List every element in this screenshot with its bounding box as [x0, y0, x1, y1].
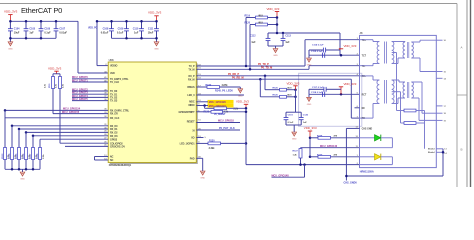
wire strap bottom rail — [5, 168, 40, 170]
wire P0_TD_M — [196, 68, 309, 70]
capacitor C117 0.1uF — [308, 89, 310, 94]
wire P0_RD_M — [196, 78, 351, 80]
choke CMC RX — [392, 79, 399, 81]
svg-text:PAD: PAD — [190, 157, 195, 160]
wire net MCU_GPIO72 — [72, 90, 108, 92]
wire bank2 top rail — [97, 20, 157, 22]
svg-text:C112: C112 — [250, 35, 256, 37]
wire MCU_GPIO148 stub — [304, 165, 306, 178]
ground — [20, 172, 25, 176]
svg-text:U08: U08 — [109, 58, 114, 62]
svg-text:TCT: TCT — [362, 55, 367, 57]
wire to shield — [424, 111, 426, 149]
wire R129 — [310, 156, 318, 158]
wire cap split — [286, 111, 301, 113]
highlight MDC net label — [208, 100, 234, 104]
wire R120 to TX_M — [249, 25, 251, 70]
svg-text:P0_RD_M: P0_RD_M — [232, 76, 244, 79]
wire net MCU_GPIO70 — [72, 78, 108, 80]
wire to R125 — [264, 76, 266, 90]
resistor R130 2.49k — [208, 142, 221, 145]
resistor R115 2.2k strap — [18, 148, 21, 160]
resistor R123 2.2k — [211, 110, 223, 113]
resistor R127 1.2k — [299, 149, 302, 159]
wire RX_D2 strap row — [26, 131, 108, 133]
wire cap bottom rail — [268, 45, 283, 47]
wire cap bottom — [286, 124, 301, 126]
svg-text:NC: NC — [362, 108, 366, 110]
LED green D1 — [360, 137, 375, 139]
svg-text:0.01uF: 0.01uF — [101, 32, 109, 35]
wire bank2 bottom rail — [112, 37, 157, 39]
svg-text:NC: NC — [110, 159, 114, 162]
svg-text:XO: XO — [191, 137, 195, 140]
resistor R128 4.7k — [318, 136, 331, 139]
resistor R112 2.2k pullup — [59, 77, 62, 89]
sheet frame right inner border — [456, 4, 458, 188]
wire VDD drop to AVD pin — [77, 21, 79, 73]
svg-text:R113: R113 — [2, 153, 4, 159]
power VDD_3V3 — [154, 15, 158, 17]
svg-text:MCU_GPIO71: MCU_GPIO71 — [72, 79, 88, 82]
svg-text:RBIAS: RBIAS — [187, 86, 195, 89]
pin NC stub — [355, 107, 360, 109]
svg-text:MCU_GPIO140: MCU_GPIO140 — [320, 145, 338, 148]
svg-text:HR911105A: HR911105A — [360, 170, 374, 174]
ground — [154, 42, 159, 46]
svg-text:VDD_3V3: VDD_3V3 — [48, 67, 62, 71]
wire strap R113 — [4, 110, 6, 147]
svg-text:MCU_GPIO75: MCU_GPIO75 — [72, 98, 88, 101]
capacitor C110 — [141, 21, 143, 28]
power VDD_3V3 — [54, 70, 58, 72]
svg-text:C114 0.1uF: C114 0.1uF — [312, 44, 324, 47]
svg-text:1uF: 1uF — [303, 122, 308, 124]
pin 14 — [436, 77, 442, 79]
ground — [200, 171, 205, 175]
svg-text:GND: GND — [154, 48, 159, 50]
svg-text:R129: R129 — [317, 155, 323, 157]
wire to gnd — [308, 55, 310, 58]
capacitor C118 on RCT row — [322, 92, 324, 97]
capacitor C107 — [55, 21, 57, 28]
power VDD_3V3 — [308, 130, 312, 132]
capacitor C104 — [9, 21, 11, 28]
svg-text:LED_1/GPIO1: LED_1/GPIO1 — [180, 143, 196, 146]
resistor R113 2.2k strap — [4, 148, 7, 160]
svg-text:R130: R130 — [209, 140, 215, 142]
svg-text:C106: C106 — [44, 27, 50, 30]
svg-text:VDD_3V3: VDD_3V3 — [344, 82, 357, 86]
svg-text:VDD_3V3: VDD_3V3 — [148, 11, 162, 15]
svg-text:GND: GND — [200, 178, 205, 180]
svg-text:49.9: 49.9 — [258, 21, 263, 24]
resistor bob-smith 75R — [404, 109, 416, 112]
svg-text:C120: C120 — [303, 114, 309, 116]
highlight MDIO net label — [208, 104, 234, 108]
diff pair blanket box — [299, 73, 362, 126]
wire pullup split — [53, 73, 60, 75]
svg-text:C107: C107 — [59, 27, 65, 30]
svg-text:R127: R127 — [293, 150, 299, 152]
svg-text:VDD_P0: VDD_P0 — [88, 28, 98, 30]
pin 18 — [436, 112, 442, 114]
svg-text:GPIO0/INTRPT: GPIO0/INTRPT — [179, 111, 196, 114]
svg-text:VDD_3V3: VDD_3V3 — [4, 10, 18, 14]
resistor R114 2.2k strap — [11, 148, 14, 160]
svg-text:P0_TD_M: P0_TD_M — [261, 67, 272, 70]
power VDD_3V3 — [244, 103, 248, 105]
svg-text:R115: R115 — [16, 153, 18, 159]
ground — [273, 49, 278, 53]
svg-text:C117 0.1uF: C117 0.1uF — [312, 87, 324, 89]
wire RX_D3 strap row — [33, 135, 108, 137]
resistor R118 2.2k strap — [39, 148, 42, 160]
wire bank1 bottom rail — [10, 37, 56, 39]
wire net MCU_GPIO75 — [72, 100, 108, 102]
bob smith termination — [392, 52, 397, 54]
ground — [8, 42, 13, 46]
svg-text:GND: GND — [307, 104, 312, 106]
wire MDIO pullup — [204, 106, 206, 109]
svg-text:0.1uF: 0.1uF — [288, 122, 294, 124]
capacitor C106 — [40, 21, 42, 28]
pin 17 — [436, 105, 442, 107]
svg-text:B: B — [460, 148, 462, 152]
svg-text:RX_M: RX_M — [188, 78, 195, 81]
transformer T2 RX windings — [360, 75, 374, 77]
resistor R122 2.2k — [214, 107, 227, 110]
svg-text:RESET: RESET — [187, 120, 195, 123]
svg-text:C119: C119 — [288, 114, 294, 116]
wire RX bias rail — [295, 90, 297, 113]
wire strap R114 — [11, 126, 13, 148]
wire GPIO0/INTRPT — [196, 111, 211, 113]
wire net MCU_GPIO74 — [72, 96, 108, 98]
svg-text:MCU_GPIO126: MCU_GPIO126 — [209, 101, 227, 104]
wire TCT net from run — [339, 33, 341, 55]
resistor R111 2.2k pullup — [52, 77, 55, 89]
wire LED pullup rail — [309, 138, 311, 157]
wire P0_TD_P — [196, 65, 305, 67]
wire shield net — [442, 149, 444, 176]
wire strap R116 — [25, 132, 27, 147]
svg-text:GND: GND — [238, 95, 243, 97]
power VDD_3V3 — [339, 86, 343, 88]
resistor R117 2.2k strap — [32, 148, 35, 160]
wire RESET — [196, 122, 240, 124]
svg-text:EtherCAT P0: EtherCAT P0 — [21, 6, 62, 15]
svg-text:R117: R117 — [30, 153, 32, 159]
svg-text:CHS GND: CHS GND — [362, 129, 373, 131]
svg-text:C104: C104 — [14, 27, 20, 30]
wire strap R117 — [32, 136, 34, 148]
capacitor C109 — [126, 21, 128, 28]
wire MDIO — [196, 105, 208, 107]
svg-text:1uF: 1uF — [134, 32, 139, 35]
svg-text:RCT: RCT — [362, 94, 367, 96]
wire R120 left — [250, 24, 256, 26]
wire strap R115 — [18, 129, 20, 148]
frame tick marks — [457, 94, 467, 96]
capacitor C115 on TCT row — [322, 53, 324, 58]
svg-text:Shield: Shield — [428, 149, 435, 151]
svg-text:R120: R120 — [245, 22, 251, 24]
svg-text:1uF: 1uF — [251, 42, 256, 44]
wire T2 out+ — [411, 81, 422, 83]
resistor R129 4.7k — [318, 155, 331, 158]
svg-text:P0_PHY_CLK: P0_PHY_CLK — [219, 127, 235, 130]
wire to gnd — [22, 169, 24, 172]
wire XI clock — [196, 129, 240, 131]
wire XO stub — [196, 137, 203, 139]
svg-text:AVD: AVD — [110, 72, 115, 75]
svg-text:CRS/CRS_DV: CRS/CRS_DV — [110, 146, 125, 149]
wire T1 out+ — [411, 41, 420, 43]
wire TD_M jog up — [308, 66, 310, 70]
IC U10 DP83826E PHY body — [108, 62, 196, 163]
wire LED_0 — [196, 94, 244, 96]
svg-text:1uF: 1uF — [285, 42, 290, 44]
svg-text:MCU_GPIO18: MCU_GPIO18 — [218, 120, 234, 123]
svg-text:VDD_3V3: VDD_3V3 — [344, 44, 357, 48]
sheet frame outer edge — [466, 0, 468, 187]
wire CRS row — [65, 145, 108, 147]
wire RD_M jog — [350, 79, 352, 118]
wire T2 out- — [411, 97, 419, 99]
wire RX_D0 strap row — [12, 125, 108, 127]
wire to gnd — [308, 94, 310, 97]
svg-text:R118: R118 — [37, 153, 39, 159]
svg-text:1uF: 1uF — [29, 32, 34, 35]
wire MDC — [196, 101, 208, 103]
svg-text:R125: R125 — [273, 87, 279, 89]
wire to gnd — [9, 38, 11, 42]
svg-text:C109: C109 — [118, 27, 124, 30]
wire P0_RD_P — [196, 75, 359, 77]
svg-text:MCU_GPIO148: MCU_GPIO148 — [272, 174, 290, 177]
svg-text:R123: R123 — [204, 112, 210, 114]
resistor R116 2.2k strap — [25, 148, 28, 160]
ground — [307, 97, 312, 101]
svg-text:RJ45_P0_LED0: RJ45_P0_LED0 — [215, 89, 233, 92]
wire RX_DV strap row — [5, 109, 108, 111]
wire RX_D1 strap row — [19, 128, 108, 130]
ground — [238, 89, 243, 93]
svg-text:R126: R126 — [273, 95, 279, 97]
svg-text:0.1uF: 0.1uF — [44, 32, 51, 35]
sheet frame top border — [0, 3, 457, 5]
svg-text:CHS_GND0: CHS_GND0 — [344, 182, 358, 185]
power VDD_3V3 — [275, 11, 279, 13]
svg-text:10uF: 10uF — [148, 32, 154, 35]
resistor R119 49.9 — [256, 16, 268, 19]
svg-text:GND: GND — [20, 179, 25, 181]
svg-text:C108: C108 — [103, 27, 109, 30]
svg-text:P0_MDINT: P0_MDINT — [214, 114, 226, 116]
svg-text:GND: GND — [8, 48, 13, 50]
wire RCT row — [309, 93, 360, 95]
svg-text:2.49k: 2.49k — [209, 147, 215, 150]
svg-text:2.2k: 2.2k — [234, 109, 239, 111]
transformer T1 TX windings — [360, 39, 374, 41]
capacitor C113 1uF — [282, 33, 284, 38]
wire strap R118 — [39, 139, 41, 147]
wire GPIO3 strap row — [40, 138, 108, 140]
svg-text:GND: GND — [307, 65, 312, 67]
svg-text:4.87k: 4.87k — [222, 84, 229, 87]
svg-text:GPIO3: GPIO3 — [110, 138, 118, 141]
svg-text:C105: C105 — [29, 27, 35, 30]
wire to gnd — [156, 38, 158, 42]
connector J8 RJ45 magjack body — [360, 35, 437, 167]
wire RX_CLK row — [5, 117, 108, 119]
wire LED_1 — [196, 142, 208, 144]
svg-text:R132: R132 — [206, 84, 212, 87]
svg-text:VDD_3V3: VDD_3V3 — [304, 126, 317, 130]
choke CMC TX — [392, 41, 405, 43]
wire bank1 top rail — [10, 20, 78, 22]
svg-text:49.9: 49.9 — [258, 14, 263, 17]
svg-text:VDD_3V3: VDD_3V3 — [236, 100, 249, 104]
wire MCU_GPIO140 — [301, 147, 360, 149]
wire RX_ER row — [53, 113, 108, 115]
svg-text:R114: R114 — [8, 153, 11, 159]
svg-text:×: × — [204, 136, 206, 140]
wire power stem to bank1 rail — [9, 15, 11, 22]
wire net MCU_GPIO73 — [72, 93, 108, 95]
svg-text:MCU_GPIO155: MCU_GPIO155 — [62, 111, 80, 114]
capacitor C111 — [156, 21, 158, 28]
pin 19 — [436, 119, 442, 121]
ground — [307, 58, 312, 62]
resistor R126 49.9 — [280, 95, 287, 98]
svg-text:RX_ER: RX_ER — [110, 113, 118, 116]
capacitor C119 0.1uF — [285, 112, 287, 117]
wire COL row — [60, 142, 108, 144]
svg-text:R116: R116 — [23, 153, 25, 159]
wire pullup R112 to COL row — [59, 89, 61, 144]
svg-text:C111: C111 — [148, 27, 154, 30]
power VDD_3V3 — [339, 48, 343, 50]
svg-text:LED_0: LED_0 — [187, 94, 195, 97]
LED yellow D2 — [360, 156, 375, 158]
svg-text:Shield: Shield — [428, 152, 435, 154]
capacitor C114 0.1uF — [308, 50, 310, 55]
pin 16 — [436, 39, 442, 41]
svg-text:TX_CLK: TX_CLK — [110, 81, 119, 84]
svg-text:GND: GND — [273, 55, 278, 57]
wire TD_P jog up — [304, 40, 306, 66]
resistor bob-smith 75R — [404, 122, 416, 125]
wire to R126 — [259, 79, 261, 97]
resistor R132 4.87k — [207, 86, 220, 89]
svg-text:RX_CLK: RX_CLK — [110, 117, 120, 120]
svg-text:TX_M: TX_M — [188, 68, 194, 71]
wire R128 — [310, 137, 318, 139]
svg-text:VDD_3V3: VDD_3V3 — [287, 81, 300, 85]
wire NC tie — [94, 157, 96, 161]
wire net MCU_GPIO71 — [72, 81, 108, 83]
op IC shadow — [110, 64, 198, 165]
svg-text:0.01uF: 0.01uF — [59, 32, 67, 35]
wire R119 left — [246, 17, 256, 19]
wire LED_1 long net — [246, 164, 360, 166]
resistor R127 1.2k — [300, 147, 302, 150]
svg-text:0.1uF: 0.1uF — [117, 32, 124, 35]
wire R119 to TX_P — [245, 18, 247, 67]
resistor R125 49.9 — [280, 88, 287, 91]
ground — [292, 132, 297, 136]
capacitor C120 1uF — [300, 112, 302, 117]
wire T1 out- — [411, 57, 420, 59]
pin 15 — [436, 71, 442, 73]
resistor R120 49.9 — [256, 23, 268, 26]
wire RBIAS — [196, 86, 207, 88]
svg-text:R119: R119 — [245, 15, 251, 17]
power VDD_3V3 — [8, 14, 12, 16]
svg-text:R128: R128 — [317, 136, 323, 138]
svg-text:C118 0.1uF: C118 0.1uF — [311, 92, 323, 94]
wire center tap run — [268, 32, 340, 34]
svg-text:DP83826ERHBRQ1: DP83826ERHBRQ1 — [109, 163, 132, 167]
capacitor C112 1uF — [267, 33, 269, 38]
svg-text:VDD_3V3: VDD_3V3 — [267, 7, 280, 11]
wire TCT row — [309, 54, 360, 56]
svg-text:VDDIO: VDDIO — [110, 65, 118, 68]
svg-text:10uF: 10uF — [14, 32, 20, 35]
svg-text:C113: C113 — [285, 35, 291, 37]
wire CHS_GND — [346, 127, 359, 129]
wire PAD to gnd — [196, 157, 202, 159]
wire pullup R111 to RX_ER row — [52, 89, 54, 114]
svg-text:TX_D3: TX_D3 — [110, 100, 118, 103]
wire VDD drop to VDDIO pin — [96, 21, 98, 65]
power VDD_3V3 — [293, 85, 297, 87]
svg-text:C115 0.1uF: C115 0.1uF — [311, 51, 323, 53]
svg-text:GND: GND — [292, 139, 297, 141]
svg-text:MDIO: MDIO — [188, 104, 194, 107]
capacitor C108 — [111, 21, 113, 28]
capacitor C105 — [25, 21, 27, 28]
svg-text:A: A — [460, 46, 462, 50]
svg-text:C110: C110 — [133, 27, 139, 30]
wire pullup rail down — [245, 108, 247, 164]
